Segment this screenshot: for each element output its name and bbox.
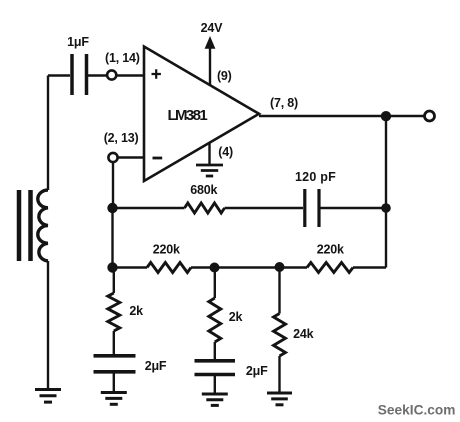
capacitor C1 1uF plates — [70, 54, 74, 95]
wire 2uF-2 to ground — [214, 376, 216, 393]
wire node A down — [111, 208, 113, 268]
svg-text:220k: 220k — [317, 243, 344, 257]
wire node E down to R 24k — [278, 267, 280, 314]
svg-text:(7, 8): (7, 8) — [270, 96, 298, 110]
capacitor C3 2uF plates — [94, 354, 136, 358]
ground G1 — [35, 388, 61, 391]
wire terminal to op-amp minus input — [118, 156, 144, 158]
wire 120pF to right node — [321, 207, 387, 209]
resistor 220k #2 — [307, 263, 353, 273]
wire 220k-1 to 220k-2 — [191, 266, 307, 268]
terminal (2,13) open circle — [108, 153, 117, 162]
junction output node — [381, 111, 391, 121]
svg-text:LM381: LM381 — [167, 107, 207, 124]
node C left 220k row — [107, 262, 117, 272]
ground G5 — [267, 392, 292, 395]
wire 2k-2 to C 2uF-2 — [214, 342, 216, 359]
wire node D down to R 2k-2 — [214, 268, 216, 299]
transformer core bar 2 — [28, 190, 33, 261]
op-amp plus symbol — [152, 69, 161, 78]
wire 220k-2 to right riser — [353, 266, 386, 268]
svg-text:(9): (9) — [217, 69, 232, 83]
arrowhead 24V — [205, 36, 216, 49]
wire node C down to R 2k-1 — [113, 268, 115, 294]
svg-text:1μF: 1μF — [67, 35, 89, 49]
op-amp minus symbol — [153, 157, 163, 160]
svg-text:(4): (4) — [218, 145, 233, 159]
wire 680k to C 120pF — [225, 207, 304, 209]
svg-text:(1, 14): (1, 14) — [105, 51, 140, 65]
wire left vertical down to coil — [47, 76, 49, 191]
wire C1 to terminal — [88, 74, 107, 76]
wire output — [259, 115, 424, 117]
resistor 680k — [185, 203, 225, 213]
resistor 2k #1 — [108, 293, 120, 331]
svg-text:2μF: 2μF — [145, 359, 167, 373]
ground G3 — [101, 391, 127, 394]
resistor 220k #1 — [147, 263, 191, 273]
wire pin 4 stem — [208, 143, 210, 164]
resistor 2k #2 — [209, 298, 221, 342]
wire input top-left horizontal — [48, 74, 70, 76]
svg-text:SeekIC.com: SeekIC.com — [378, 403, 456, 418]
terminal output open circle — [425, 111, 435, 121]
svg-text:(2, 13): (2, 13) — [104, 131, 139, 145]
capacitor C4 2uF plates — [195, 359, 236, 363]
svg-text:2k: 2k — [229, 310, 243, 324]
wire output node down right side — [385, 116, 387, 268]
resistor 24k — [274, 314, 286, 357]
wire terminal down to feedback node — [112, 162, 114, 208]
node E mid row — [275, 262, 285, 272]
node B feedback right — [381, 203, 391, 213]
node A feedback left — [107, 203, 117, 213]
svg-text:220k: 220k — [153, 242, 180, 256]
op-amp U1 LM381 triangle — [144, 47, 259, 182]
wire node to R 680k — [113, 207, 185, 209]
svg-text:2μF: 2μF — [246, 364, 268, 378]
svg-text:680k: 680k — [190, 183, 217, 197]
transformer L1 coil — [38, 190, 48, 261]
ground G4 — [202, 393, 228, 396]
wire 2uF-1 to ground — [113, 374, 115, 392]
wire pin 9 supply — [209, 47, 211, 85]
node D mid row — [210, 263, 220, 273]
wire coil bottom to ground — [47, 261, 49, 389]
capacitor C2 120pF plates — [303, 189, 306, 227]
wire node C to R 220k-1 — [113, 266, 148, 268]
svg-text:24k: 24k — [293, 327, 314, 341]
transformer core bar 1 — [17, 190, 22, 261]
svg-text:24V: 24V — [201, 21, 224, 35]
svg-text:120 pF: 120 pF — [295, 170, 336, 184]
wire terminal to op-amp + input — [117, 74, 145, 76]
ground G2 pin4 — [196, 164, 223, 167]
wire 24k to ground — [278, 356, 280, 392]
svg-text:2k: 2k — [129, 304, 143, 318]
wire 2k-1 to C 2uF-1 — [113, 331, 115, 354]
terminal (1,14) open circle — [107, 70, 116, 79]
